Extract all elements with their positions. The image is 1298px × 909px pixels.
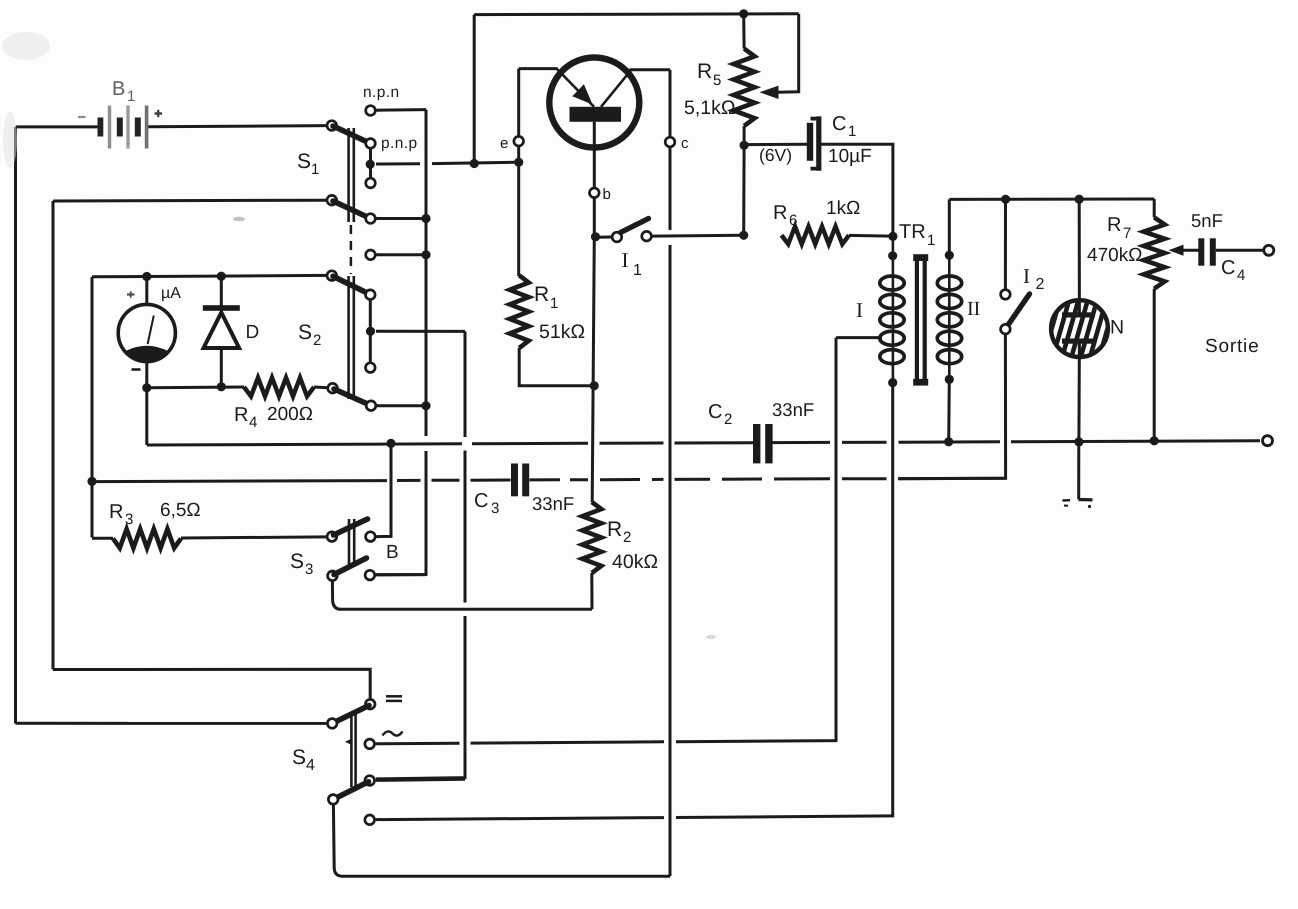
label B1 xyxy=(112,78,135,105)
switch S1 pole1 input contact xyxy=(327,121,337,131)
junction TR1 secondary winding top xyxy=(945,251,954,260)
label n.p.n xyxy=(363,84,399,101)
junction I1 left xyxy=(591,232,600,241)
wire R5 node down to I1 node xyxy=(742,145,745,235)
label R5 xyxy=(697,60,721,89)
label ac symbol xyxy=(383,731,403,735)
svg-text:200Ω: 200Ω xyxy=(267,404,313,425)
junction TR1 primary winding bottom xyxy=(888,378,897,387)
wire TR1 primary top lead xyxy=(892,236,895,382)
switch S2 pole2 input contact xyxy=(328,383,338,393)
svg-text:1: 1 xyxy=(633,262,642,279)
wire wiper to C4 xyxy=(1182,249,1199,252)
label p.n.p xyxy=(381,135,417,152)
switch S2 contact b xyxy=(366,363,376,373)
wire top left drop xyxy=(473,15,476,164)
switch S3 pole1 lever xyxy=(334,519,368,535)
junction rail TR1 secondary xyxy=(944,437,953,446)
wire R1 bottom lead xyxy=(519,348,594,386)
svg-text:33nF: 33nF xyxy=(532,493,574,514)
junction diode bottom xyxy=(217,382,226,391)
R7 wiper arrow xyxy=(1169,245,1184,256)
wire c column upper xyxy=(669,70,672,230)
junction C3 line left xyxy=(87,477,96,486)
svg-text:4: 4 xyxy=(1237,267,1245,284)
label N xyxy=(1110,317,1124,339)
svg-text:D: D xyxy=(246,322,260,343)
wire npn bus upper xyxy=(425,110,428,436)
wire c column lower xyxy=(669,245,672,876)
wire meter top rail to S2 xyxy=(92,275,327,276)
label C1 xyxy=(832,113,856,140)
wire C4 to output xyxy=(1216,249,1264,252)
switch I1 lever xyxy=(621,219,649,233)
neon lamp N xyxy=(1016,300,1144,357)
meter lead top xyxy=(145,277,148,305)
label R1 xyxy=(534,283,558,312)
diode D triangle xyxy=(204,313,240,349)
wire TR1 secondary bottom lead xyxy=(947,379,951,442)
R5 wiper arrow xyxy=(760,86,779,99)
wire main rail seg2 xyxy=(600,442,664,445)
meter lead bottom xyxy=(145,362,148,388)
junction N top xyxy=(1075,195,1084,204)
wire C3 line seg12 xyxy=(842,477,887,480)
switch I2 lever xyxy=(1008,294,1030,325)
svg-text:R: R xyxy=(697,60,712,83)
meter scale fill xyxy=(125,346,169,362)
switch S1 bar xyxy=(349,128,354,222)
svg-text:1: 1 xyxy=(127,88,135,105)
label C3 value xyxy=(532,493,574,514)
label e xyxy=(500,135,508,152)
junction pnp stub xyxy=(366,160,375,169)
junction top-wire drop xyxy=(470,159,479,168)
switch S3 pole2 contact B xyxy=(365,570,375,580)
switch S2 bar xyxy=(349,276,354,399)
switch S4 contact4 xyxy=(365,815,375,825)
wire S4 pole2 to c column xyxy=(343,875,670,878)
transformer TR1 core xyxy=(913,254,928,385)
wire C1 left lead xyxy=(744,143,807,146)
label battery minus sign xyxy=(78,116,86,118)
label C2 xyxy=(708,401,732,428)
junction base R1 xyxy=(590,381,599,390)
svg-text:II: II xyxy=(967,298,980,320)
resistor R3 xyxy=(113,529,181,548)
label R2 value xyxy=(612,551,658,573)
svg-text:5,1kΩ: 5,1kΩ xyxy=(684,97,735,119)
wire R7 top lead xyxy=(1153,199,1156,217)
junction bus contact5 xyxy=(421,250,430,259)
svg-text:p.n.p: p.n.p xyxy=(381,135,417,152)
svg-text:1: 1 xyxy=(550,295,558,312)
wire R6 right lead xyxy=(849,234,893,238)
wire S3 pole2 input down xyxy=(332,582,341,610)
svg-text:33nF: 33nF xyxy=(772,399,814,420)
switch S4 bar xyxy=(345,712,356,787)
wire main rail seg5 xyxy=(842,441,887,444)
label winding I xyxy=(856,298,863,322)
label meter plus xyxy=(127,291,135,297)
wire main rail seg1a xyxy=(147,444,462,445)
svg-text:1: 1 xyxy=(848,123,856,140)
capacitor C4 xyxy=(1198,238,1216,265)
switch S1 pole2 input contact xyxy=(327,195,337,205)
wire dc feed horizontal xyxy=(53,669,370,698)
capacitor C1 plate left xyxy=(807,123,813,161)
wire main rail seg6 xyxy=(899,440,1001,443)
wire R7 bottom lead xyxy=(1153,289,1156,441)
junction e column xyxy=(514,158,523,167)
wire meter bottom rail xyxy=(147,386,244,390)
junction top R5 xyxy=(739,9,748,18)
wire TR1 tap xyxy=(836,336,882,339)
wire C3 line seg1 xyxy=(92,481,387,482)
switch S1 pnp contact xyxy=(366,139,376,149)
svg-text:C: C xyxy=(1221,257,1235,279)
wire base line to R2 xyxy=(592,237,594,502)
svg-text:(6V): (6V) xyxy=(759,145,792,165)
wire R4 to S2 xyxy=(314,386,328,390)
wire left rail 3 from meter rail down to R3 xyxy=(91,277,94,538)
wire N bottom lead xyxy=(1077,341,1081,442)
wire pnp node to e column (seg1) xyxy=(376,162,420,165)
transistor base bar xyxy=(570,107,622,122)
svg-text:S: S xyxy=(298,321,312,344)
label C4 xyxy=(1221,257,1245,284)
svg-text:S: S xyxy=(297,150,311,173)
label R4 xyxy=(234,404,257,431)
svg-text:3: 3 xyxy=(305,561,313,578)
label meter minus xyxy=(132,368,141,371)
wire main rail seg1b xyxy=(472,442,588,446)
ground mark xyxy=(1063,500,1093,509)
wire C3 line seg8 xyxy=(652,478,664,481)
wire C3 line seg7 xyxy=(600,478,640,481)
junction TR1 primary winding top xyxy=(888,251,897,260)
wire C3 line seg6 xyxy=(570,478,588,481)
switch S4 pole2 lever xyxy=(335,782,369,799)
wire S2 contact stub xyxy=(369,300,372,362)
svg-text:I: I xyxy=(856,298,863,322)
wire C3 line seg2 xyxy=(397,479,421,482)
label R7 xyxy=(1107,214,1131,242)
wire npn contact to right bus xyxy=(377,108,427,112)
capacitor C1 plate right xyxy=(811,116,820,170)
terminal b xyxy=(590,188,600,198)
svg-text:S: S xyxy=(290,550,304,573)
label C3 xyxy=(474,490,499,517)
svg-text:470kΩ: 470kΩ xyxy=(1087,245,1142,266)
svg-text:3: 3 xyxy=(125,511,133,528)
switch S1 pole1 lever xyxy=(333,126,370,143)
wire I2 lower lead xyxy=(898,335,1006,479)
switch I2 bottom contact xyxy=(1001,324,1011,334)
switch S1 contact 3 xyxy=(366,178,376,188)
switch S1 npn contact xyxy=(366,106,376,116)
svg-text:7: 7 xyxy=(1123,225,1131,242)
switch I1 left contact xyxy=(612,232,622,242)
switch S3 pole1 input contact xyxy=(327,532,337,542)
wire collector horizontal xyxy=(630,68,671,71)
label uA xyxy=(161,285,181,302)
label B node xyxy=(386,542,399,563)
svg-text:3: 3 xyxy=(491,500,499,517)
capacitor C3 xyxy=(511,464,529,497)
wire C3 line seg10 xyxy=(722,478,762,481)
label R4 value xyxy=(267,404,313,425)
label R5 value xyxy=(684,97,735,119)
wire left rail from battery minus down to S4 wire xyxy=(14,127,17,724)
transistor emitter arrow xyxy=(572,84,592,104)
svg-text:R: R xyxy=(534,283,549,306)
wire pnp contact stub xyxy=(369,148,372,178)
switch S4 pole2 input contact xyxy=(328,795,338,805)
junction R5 bottom node xyxy=(739,231,748,240)
switch S2 pole1 lever xyxy=(333,276,369,294)
meter uA body xyxy=(118,304,175,361)
terminal c xyxy=(665,137,675,147)
svg-text:2: 2 xyxy=(623,529,631,546)
svg-text:C: C xyxy=(832,113,846,135)
wire C3 line seg3 xyxy=(432,479,460,482)
svg-text:R: R xyxy=(234,404,248,426)
switch I2 top contact xyxy=(1001,290,1011,300)
junction meter top xyxy=(142,272,151,281)
switch S3 pole1 contact xyxy=(366,532,376,542)
wire S2 mid node to V5 xyxy=(376,330,465,333)
wire TR1 secondary inner lead xyxy=(948,255,951,379)
junction bus pole2 xyxy=(421,214,430,223)
wire S3 pole1 contact up to rail xyxy=(376,444,391,537)
wire R3 to S3 xyxy=(181,537,326,538)
wire left rail 2 from S1 pole2 down to S4 dc wire xyxy=(52,201,55,670)
wire R5 wiper loop xyxy=(777,14,799,92)
label battery plus sign xyxy=(155,110,163,117)
label winding II xyxy=(967,298,980,320)
terminal output bottom xyxy=(1263,436,1273,446)
junction S2 mid node xyxy=(366,327,375,336)
wire R1 top lead xyxy=(518,275,520,277)
wire S4 contact4 to TR1 primary (seg2) xyxy=(676,383,893,818)
wire I1 to R6 node xyxy=(652,234,743,238)
diode D lead top xyxy=(220,276,223,305)
terminal e xyxy=(514,136,524,146)
wire R5 top lead xyxy=(742,14,745,49)
wire secondary top rail xyxy=(949,198,1154,201)
wire battery right lead to S1 xyxy=(148,126,328,127)
svg-text:1: 1 xyxy=(311,161,319,178)
junction TR1 secondary winding bottom xyxy=(945,375,954,384)
svg-text:10µF: 10µF xyxy=(828,146,872,167)
wire npn bus lower xyxy=(376,451,426,575)
svg-text:5: 5 xyxy=(713,72,721,89)
label I2 xyxy=(1023,264,1045,293)
label R6 xyxy=(773,202,797,229)
switch S4 dc contact xyxy=(365,699,375,709)
wire S1 contact5 to bus xyxy=(377,253,427,256)
label S1 xyxy=(297,150,319,178)
label R1 value xyxy=(539,321,585,343)
svg-text:1kΩ: 1kΩ xyxy=(826,198,860,219)
junction bus S2 output xyxy=(421,401,430,410)
junction meter bottom xyxy=(142,383,151,392)
diode D cathode bar xyxy=(203,305,240,311)
mechanical link S1-S2 dashed xyxy=(350,225,353,274)
label b xyxy=(603,186,611,203)
svg-text:µA: µA xyxy=(161,285,181,302)
wire ac contact to TR1 tap (seg2) xyxy=(471,742,665,743)
switch S2 pole2 contact xyxy=(366,401,376,411)
switch S2 contact a xyxy=(366,290,376,300)
label S4 xyxy=(292,746,315,774)
junction R5 C1 node xyxy=(740,141,749,150)
label C1 value xyxy=(828,146,872,167)
switch I1 right contact xyxy=(642,231,652,241)
svg-text:51kΩ: 51kΩ xyxy=(539,321,585,343)
wire ac contact to TR1 tap (seg3) xyxy=(676,338,836,742)
switch S3 bar xyxy=(349,519,354,567)
transistor base lead xyxy=(593,122,596,237)
svg-text:S: S xyxy=(292,746,306,769)
transistor emitter line xyxy=(557,69,594,107)
wire C3 line seg9 xyxy=(675,478,711,481)
wire emitter horizontal xyxy=(519,67,558,70)
svg-text:R: R xyxy=(773,202,787,224)
junction I2 top xyxy=(1001,195,1010,204)
svg-text:N: N xyxy=(1110,317,1124,339)
switch S1 pole2 lever xyxy=(333,201,370,218)
svg-text:R: R xyxy=(109,501,123,523)
label TR1 xyxy=(899,221,935,249)
wire N ground drop xyxy=(1077,442,1080,499)
junction rail R7 xyxy=(1150,436,1159,445)
svg-text:I: I xyxy=(1023,264,1030,288)
label C1 voltage xyxy=(759,145,792,165)
resistor R5 xyxy=(734,49,755,126)
wire e column xyxy=(517,69,520,276)
resistor R6 xyxy=(782,227,850,245)
svg-text:6: 6 xyxy=(789,212,797,229)
label Sortie xyxy=(1205,336,1259,357)
label C4 value xyxy=(1191,210,1223,231)
wire C3 line seg5 xyxy=(530,478,561,481)
label R3 value xyxy=(160,500,201,521)
svg-text:4: 4 xyxy=(249,414,257,431)
wire C3 line seg11 xyxy=(774,477,830,480)
svg-text:5nF: 5nF xyxy=(1191,210,1223,231)
wire C1 right lead xyxy=(820,144,893,236)
wire S1 pole2 feed xyxy=(53,199,328,203)
wire S2 output down to S4 contact3 xyxy=(376,331,465,779)
label R7 value xyxy=(1087,245,1142,266)
wire C3 line seg13 xyxy=(899,477,1006,480)
scan speck xyxy=(233,217,716,639)
wire R5 bottom lead xyxy=(743,126,746,145)
label S3 xyxy=(290,550,313,578)
resistor R7 xyxy=(1144,217,1165,288)
switch S3 pole2 input contact xyxy=(328,571,338,581)
switch S4 ac contact xyxy=(365,739,375,749)
svg-text:B: B xyxy=(112,78,125,100)
wire pnp node to e column (seg2) xyxy=(432,162,519,163)
label C2 value xyxy=(772,399,814,420)
wire main rail seg4 xyxy=(772,441,830,444)
wire meter to rail xyxy=(145,388,148,445)
transformer TR1 secondary winding xyxy=(937,276,961,364)
label S2 xyxy=(298,321,321,349)
svg-text:e: e xyxy=(500,135,508,152)
diode D lead bottom xyxy=(220,348,223,387)
label c xyxy=(681,135,689,152)
resistor R1 xyxy=(510,275,529,348)
terminal output top xyxy=(1264,245,1274,255)
wire S4 pole1 input xyxy=(16,722,327,725)
wire R3 left lead xyxy=(92,537,113,540)
wire S4 contact4 to TR1 primary (seg1) xyxy=(376,818,664,820)
wire I2 upper lead xyxy=(1004,199,1007,288)
wire S2 pole2 to bus xyxy=(377,404,426,407)
svg-text:6,5Ω: 6,5Ω xyxy=(160,500,201,521)
wire B contact to bus xyxy=(376,573,426,576)
switch S2 pole2 lever xyxy=(334,389,370,405)
switch S4 pole1 input contact xyxy=(327,719,337,729)
junction rail S3 xyxy=(386,439,395,448)
wire I1 left stub xyxy=(596,236,612,239)
scan smudge top-left xyxy=(2,32,50,168)
capacitor C2 xyxy=(753,424,773,463)
label dc symbol xyxy=(386,696,402,701)
label I1 xyxy=(622,248,643,279)
switch S4 pole1 lever xyxy=(334,706,369,723)
wire battery left lead xyxy=(16,125,98,128)
wire main rail seg3 xyxy=(675,441,754,444)
transformer TR1 primary winding xyxy=(880,276,904,364)
label R2 xyxy=(607,518,631,546)
svg-text:TR: TR xyxy=(899,221,926,243)
switch S1 pole2 contact xyxy=(366,214,376,224)
wire C3 line seg4 xyxy=(471,479,511,482)
junction rail N xyxy=(1074,437,1083,446)
svg-text:C: C xyxy=(474,490,488,512)
junction TR1 primary top xyxy=(888,232,897,241)
switch S3 pole2 lever xyxy=(334,558,367,575)
label D xyxy=(246,322,260,343)
svg-text:Sortie: Sortie xyxy=(1205,336,1259,357)
svg-text:R: R xyxy=(607,518,622,541)
wire R2 bottom lead xyxy=(590,573,593,609)
transistor T body xyxy=(549,58,639,148)
label R3 xyxy=(109,501,133,528)
svg-text:I: I xyxy=(622,248,629,272)
wire S1 pole2 contact to bus xyxy=(377,217,427,220)
svg-text:C: C xyxy=(708,401,722,423)
switch S2 pole1 input contact xyxy=(327,271,337,281)
switch S4 contact3 xyxy=(365,776,375,786)
wire S3 to R2 bottom xyxy=(341,608,592,611)
switch S1 contact 5 xyxy=(366,250,376,260)
label R6 value xyxy=(826,198,860,219)
transistor collector line xyxy=(601,70,632,107)
wire ac contact to TR1 tap (seg1) xyxy=(376,742,460,746)
wire top horizontal xyxy=(474,12,799,16)
resistor R4 xyxy=(244,378,314,397)
svg-text:b: b xyxy=(603,186,611,203)
svg-text:c: c xyxy=(681,135,689,152)
battery B1 xyxy=(98,106,149,149)
svg-text:R: R xyxy=(1107,214,1121,236)
